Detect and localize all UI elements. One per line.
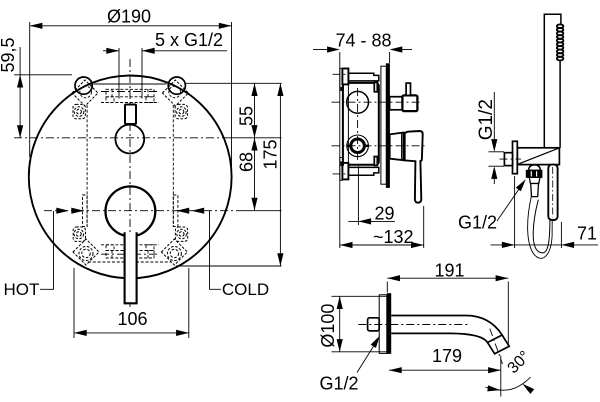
upper port circle — [347, 91, 369, 113]
shower hose loop — [528, 197, 553, 259]
dimension ~132 — [340, 206, 424, 248]
hose connector taper — [529, 177, 540, 183]
wall sleeve — [381, 66, 386, 184]
diverter knob — [402, 95, 417, 111]
COLD label and leader — [210, 211, 222, 289]
dimension G1/2 (holder thread) — [489, 92, 505, 184]
top-left ear boss — [75, 77, 92, 94]
outlet nut — [526, 170, 542, 177]
top bracket center line — [101, 91, 159, 93]
hot inlet port — [83, 195, 88, 227]
diverter knob circle — [115, 125, 144, 154]
svg-text:175: 175 — [261, 139, 281, 169]
svg-text:G1/2: G1/2 — [320, 374, 359, 394]
bottom-left ear hole — [79, 247, 93, 261]
wand lower edge — [559, 60, 561, 147]
svg-text:~132: ~132 — [373, 227, 414, 247]
svg-text:71: 71 — [577, 224, 597, 244]
spout flange — [379, 295, 387, 354]
dimension Ø190 — [30, 22, 232, 177]
dimension Ø100 — [332, 296, 388, 352]
bottom bracket (hidden) — [101, 245, 159, 258]
escutcheon circle Ø190 — [29, 75, 232, 278]
hose connector — [531, 184, 539, 197]
valve inner ring — [351, 139, 365, 153]
horizontal center line (diverter) — [14, 137, 225, 139]
holder diagonal — [517, 148, 558, 164]
top clamp center line — [333, 73, 348, 75]
label G1/2 (spout inlet) — [357, 338, 379, 373]
top-left ear screw hole — [80, 86, 92, 98]
handle lever — [405, 131, 423, 203]
valve slot ticks — [346, 145, 350, 147]
svg-text:G1/2: G1/2 — [476, 99, 497, 140]
diverter stem — [390, 97, 403, 110]
top-left ear lug — [73, 104, 85, 118]
svg-text:COLD: COLD — [222, 280, 269, 299]
horizontal center line (lever) — [44, 210, 240, 212]
svg-text:191: 191 — [435, 261, 465, 281]
body visible top edge — [94, 83, 167, 85]
diverter post — [406, 83, 410, 95]
bottom-right ear hole — [167, 247, 181, 261]
spout axis center line — [358, 324, 470, 326]
svg-text:Ø190: Ø190 — [107, 7, 151, 27]
hot inlet arrows — [56, 208, 69, 214]
top-right ear boss — [168, 77, 185, 94]
HOT label and leader — [40, 211, 54, 289]
body inner wall — [347, 85, 349, 164]
right fixing lug bottom — [374, 157, 377, 166]
cold inlet arrows — [192, 208, 205, 214]
bottom clamp plate — [340, 158, 343, 181]
body box — [343, 83, 379, 165]
dimension 106 — [74, 268, 189, 338]
holder block — [517, 148, 559, 165]
svg-text:179: 179 — [432, 346, 462, 366]
dimension 191 — [387, 278, 508, 346]
bottom mounting rail — [348, 167, 378, 175]
vertical center line — [129, 59, 131, 308]
svg-text:30°: 30° — [505, 348, 534, 377]
dimension 5 x G1/2 — [103, 48, 227, 99]
stub center line — [500, 158, 522, 160]
svg-text:Ø100: Ø100 — [318, 304, 338, 348]
top mounting rail — [348, 73, 378, 81]
bottom bracket center line — [101, 253, 159, 255]
top-right ear diamond — [162, 80, 188, 106]
dimension 71 — [491, 176, 599, 248]
dimension 29 — [348, 166, 395, 225]
top clamp — [342, 69, 348, 85]
knob center line — [332, 101, 421, 103]
body hidden left edge — [86, 105, 88, 227]
dimension 30 degrees — [486, 377, 531, 390]
svg-text:5 x G1/2: 5 x G1/2 — [155, 30, 223, 50]
G1/2 thread stub — [504, 153, 512, 166]
wall plate edge — [386, 63, 390, 188]
svg-text:68: 68 — [237, 152, 257, 172]
bottom-right ear diamond — [161, 239, 187, 265]
bottom-left ear lug — [73, 227, 85, 241]
body vertical center line — [357, 88, 359, 161]
dimension 68 — [251, 138, 257, 151]
label G1/2 (hose connection) — [497, 182, 524, 222]
spout tube — [391, 316, 502, 336]
svg-text:106: 106 — [118, 309, 148, 329]
lever center line — [332, 145, 426, 147]
body hidden bottom edge — [88, 261, 172, 263]
handle bell rim — [401, 133, 403, 160]
valve outer circle — [347, 135, 369, 157]
right fixing lug top — [374, 82, 377, 91]
spout tip axis — [490, 329, 503, 365]
cold inlet port — [173, 195, 178, 227]
top clamp plate — [340, 69, 343, 91]
handle bell — [390, 133, 404, 161]
top-right ear screw hole — [169, 86, 181, 98]
svg-text:G1/2: G1/2 — [458, 213, 497, 233]
bottom-left ear diamond — [73, 239, 99, 265]
bottom-right ear lug — [175, 227, 187, 241]
svg-text:74 - 88: 74 - 88 — [336, 31, 392, 51]
svg-text:59,5: 59,5 — [0, 37, 18, 72]
bottom clamp screw head — [341, 161, 344, 166]
body hidden right edge — [172, 105, 174, 227]
lever handle bar — [125, 232, 137, 303]
top-right ear lug — [175, 104, 187, 118]
wall flange — [513, 141, 518, 173]
top-left ear diamond — [72, 80, 98, 106]
bottom clamp center line — [333, 173, 348, 175]
spout outlet collar — [488, 335, 510, 354]
dimension 55 — [186, 83, 282, 210]
svg-text:55: 55 — [237, 106, 257, 126]
dimension 175 — [176, 83, 282, 266]
svg-text:29: 29 — [375, 204, 395, 224]
diverter stem slot — [125, 105, 136, 125]
outlet bell — [529, 165, 541, 171]
top clamp screw head — [341, 87, 344, 91]
lever pivot circle — [105, 186, 155, 236]
shower head outline — [544, 14, 561, 164]
dimension 179 — [389, 356, 501, 397]
wand handle end — [548, 165, 557, 220]
dimension 59,5 — [14, 47, 72, 138]
inlet stub G1/2 — [368, 318, 380, 331]
handle ribs — [557, 24, 564, 60]
bottom clamp — [342, 163, 348, 180]
dimension 74 - 88 — [313, 50, 412, 249]
svg-text:HOT: HOT — [4, 280, 40, 299]
wand center line — [552, 167, 554, 218]
top bracket (hidden) — [101, 89, 159, 102]
spout flange edge — [387, 293, 391, 354]
